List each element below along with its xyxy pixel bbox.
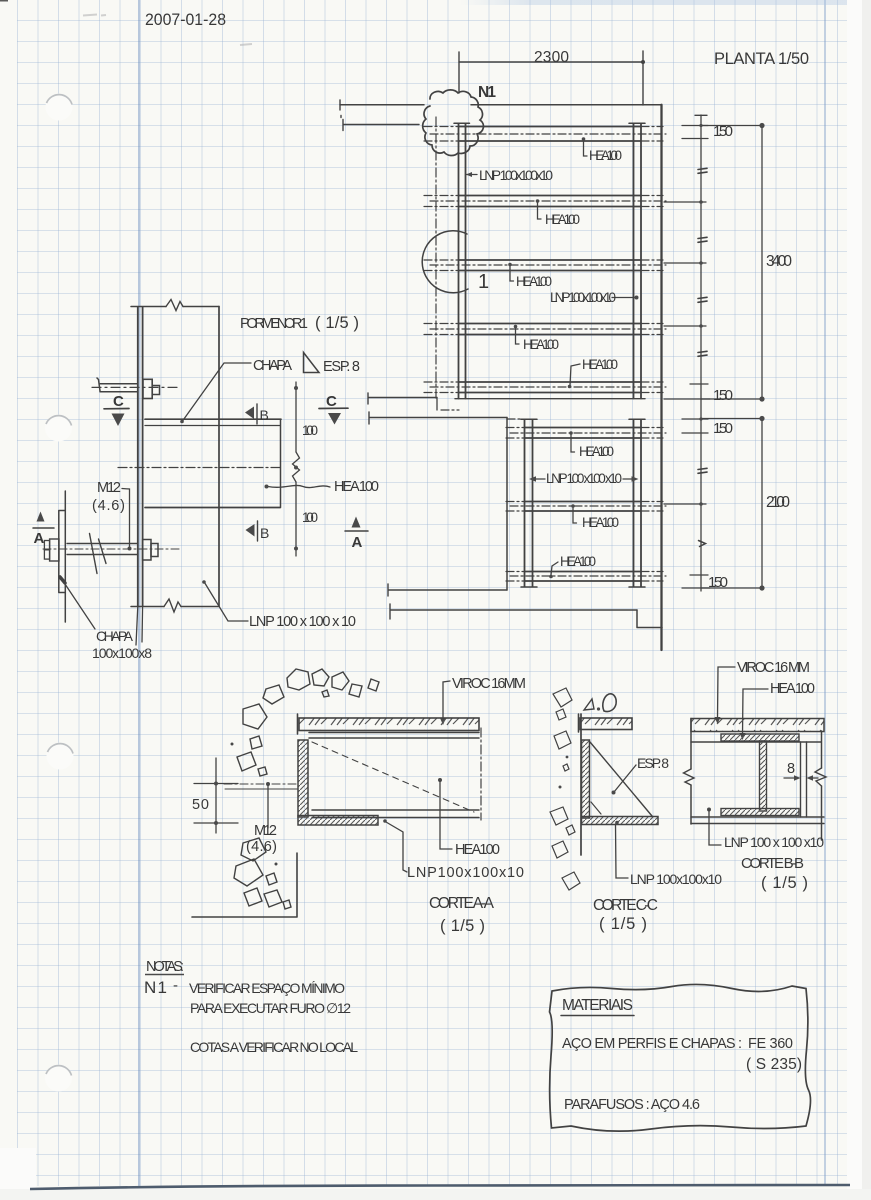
svg-text:VIROC 16MM: VIROC 16MM xyxy=(452,676,526,692)
svg-text:150: 150 xyxy=(713,387,733,404)
svg-text:100: 100 xyxy=(302,510,318,525)
svg-text:HEA 100: HEA 100 xyxy=(582,515,619,530)
svg-text:PARAFUSOS : AÇO 4.6: PARAFUSOS : AÇO 4.6 xyxy=(564,1097,700,1113)
svg-text:HEA 100: HEA 100 xyxy=(523,337,559,352)
svg-text:(4.6): (4.6) xyxy=(92,498,125,514)
svg-text:A: A xyxy=(352,534,363,551)
svg-text:LNP100x100x10: LNP100x100x10 xyxy=(407,865,524,881)
svg-text:HEA100: HEA100 xyxy=(582,357,618,372)
svg-text:( S 235): ( S 235) xyxy=(746,1056,802,1073)
svg-text:HEA100: HEA100 xyxy=(560,554,596,569)
svg-text:HEA100: HEA100 xyxy=(516,274,552,289)
svg-text:M12: M12 xyxy=(254,823,277,839)
svg-text:NOTAS:: NOTAS: xyxy=(146,959,184,975)
svg-text:50: 50 xyxy=(192,797,209,813)
svg-text:8: 8 xyxy=(787,761,795,777)
svg-text:LNP 100 x100 x10: LNP 100 x100 x10 xyxy=(546,471,622,486)
svg-text:150: 150 xyxy=(713,123,733,140)
svg-text:CHAPA: CHAPA xyxy=(253,358,292,374)
svg-text:N1: N1 xyxy=(478,84,496,101)
svg-text:ESP. 8: ESP. 8 xyxy=(637,755,669,771)
svg-text:FE 360: FE 360 xyxy=(748,1036,793,1052)
svg-text:VIROC 16 MM: VIROC 16 MM xyxy=(737,660,810,676)
svg-text:( 1/5 ): ( 1/5 ) xyxy=(599,915,647,933)
svg-text:(4.6): (4.6) xyxy=(246,839,277,855)
svg-text:2100: 2100 xyxy=(766,494,790,511)
svg-text:( 1/5 ): ( 1/5 ) xyxy=(761,874,808,892)
svg-text:3400: 3400 xyxy=(766,253,792,270)
svg-text:AÇO EM PERFIS E CHAPAS :: AÇO EM PERFIS E CHAPAS : xyxy=(562,1036,742,1052)
svg-text:100: 100 xyxy=(302,423,318,438)
svg-text:2300: 2300 xyxy=(534,49,569,66)
svg-text:COTAS A VERIFICAR NO LOCAL: COTAS A VERIFICAR NO LOCAL xyxy=(190,1039,358,1055)
svg-text:C: C xyxy=(113,393,124,410)
svg-text:CORTE C-C: CORTE C-C xyxy=(593,897,658,914)
svg-text:HEA 100: HEA 100 xyxy=(334,479,379,495)
svg-text:1: 1 xyxy=(478,271,489,293)
svg-text:A: A xyxy=(34,530,45,547)
svg-text:HEA100: HEA100 xyxy=(579,444,614,459)
svg-text:100x100x8: 100x100x8 xyxy=(92,645,152,661)
svg-text:VERIFICAR ESPAÇO MÍNIMO: VERIFICAR ESPAÇO MÍNIMO xyxy=(189,980,345,996)
svg-text:PARA EXECUTAR FURO ∅12: PARA EXECUTAR FURO ∅12 xyxy=(190,1000,351,1016)
svg-text:LNP 100x100x10: LNP 100x100x10 xyxy=(479,167,553,183)
svg-text:2007-01-28: 2007-01-28 xyxy=(145,11,226,29)
svg-text:N1: N1 xyxy=(144,978,167,997)
svg-text:150: 150 xyxy=(713,420,733,437)
svg-text:B: B xyxy=(260,407,269,423)
svg-text:( 1/5 ): ( 1/5 ) xyxy=(440,917,485,935)
svg-text:B: B xyxy=(260,525,269,541)
svg-text:150: 150 xyxy=(708,574,728,591)
svg-text:CORTE A-A: CORTE A-A xyxy=(429,895,495,912)
svg-text:-: - xyxy=(173,977,178,994)
svg-text:CORTE B-B: CORTE B-B xyxy=(741,855,804,872)
svg-text:MATERIAIS: MATERIAIS xyxy=(562,997,633,1014)
svg-text:ESP. 8: ESP. 8 xyxy=(323,359,360,375)
svg-text:LNP 100x100x10: LNP 100x100x10 xyxy=(550,290,616,305)
svg-text:LNP 100x100x10: LNP 100x100x10 xyxy=(630,871,722,887)
svg-text:LNP 100 x 100 x 10: LNP 100 x 100 x 10 xyxy=(249,614,356,630)
svg-text:HEA100: HEA100 xyxy=(455,842,500,858)
svg-text:PORMENOR 1: PORMENOR 1 xyxy=(240,316,308,332)
svg-text:HEA100: HEA100 xyxy=(589,148,622,163)
svg-text:LNP 100 x 100 x10: LNP 100 x 100 x10 xyxy=(724,834,824,850)
svg-text:( 1/5 ): ( 1/5 ) xyxy=(315,314,359,332)
svg-text:HEA 100: HEA 100 xyxy=(545,212,580,227)
svg-text:M12: M12 xyxy=(97,480,121,496)
svg-text:PLANTA 1/50: PLANTA 1/50 xyxy=(714,50,809,68)
svg-text:HEA 100: HEA 100 xyxy=(770,681,815,697)
svg-text:CHAPA: CHAPA xyxy=(96,628,134,644)
svg-text:C: C xyxy=(326,393,337,410)
